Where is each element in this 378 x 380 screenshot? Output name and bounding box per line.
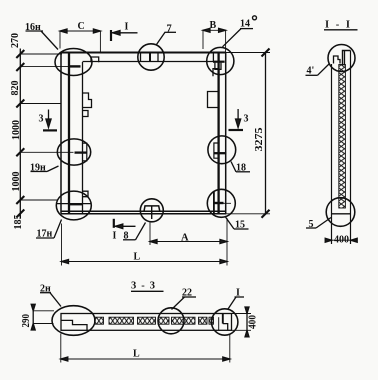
svg-text:L: L — [134, 252, 141, 263]
svg-text:L: L — [133, 349, 140, 360]
svg-text:1000: 1000 — [11, 172, 22, 192]
svg-text:4': 4' — [307, 66, 315, 77]
svg-text:В: В — [210, 20, 217, 31]
svg-text:185: 185 — [13, 215, 24, 230]
svg-text:7: 7 — [167, 24, 172, 35]
svg-text:820: 820 — [10, 81, 21, 96]
svg-text:3: 3 — [244, 114, 249, 125]
svg-text:290: 290 — [21, 314, 32, 328]
svg-text:19н: 19н — [30, 163, 46, 174]
svg-text:17н: 17н — [37, 229, 53, 240]
svg-text:I: I — [113, 231, 117, 242]
svg-text:270: 270 — [10, 33, 21, 48]
svg-text:I: I — [236, 288, 240, 299]
svg-text:3 - 3: 3 - 3 — [131, 281, 156, 292]
svg-text:3: 3 — [39, 114, 44, 125]
svg-text:400: 400 — [248, 315, 259, 329]
svg-text:А: А — [181, 233, 189, 244]
svg-text:8: 8 — [124, 231, 129, 242]
svg-text:15: 15 — [235, 220, 245, 231]
svg-text:3275: 3275 — [254, 128, 265, 152]
svg-text:1000: 1000 — [11, 120, 22, 140]
svg-text:5: 5 — [309, 219, 314, 230]
svg-text:18: 18 — [236, 163, 246, 174]
svg-text:400: 400 — [334, 235, 349, 246]
svg-text:16н: 16н — [25, 22, 41, 33]
svg-text:I - I: I - I — [325, 20, 352, 31]
svg-text:I: I — [125, 22, 129, 33]
svg-text:14: 14 — [240, 19, 250, 30]
svg-text:22: 22 — [182, 288, 192, 299]
svg-text:С: С — [78, 21, 85, 32]
svg-text:2н: 2н — [40, 284, 51, 295]
